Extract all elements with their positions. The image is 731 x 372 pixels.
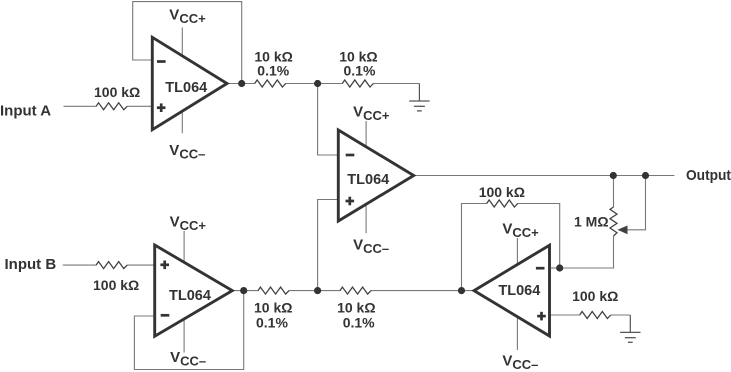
svg-text:1 MΩ: 1 MΩ [574, 213, 609, 229]
svg-text:0.1%: 0.1% [257, 63, 289, 79]
svg-text:Input A: Input A [0, 102, 51, 119]
svg-text:0.1%: 0.1% [343, 314, 375, 330]
svg-text:VCC–: VCC– [170, 349, 206, 369]
svg-text:VCC+: VCC+ [353, 104, 390, 124]
svg-text:TL064: TL064 [169, 288, 211, 304]
svg-text:TL064: TL064 [347, 172, 389, 188]
svg-text:0.1%: 0.1% [344, 63, 376, 79]
svg-text:TL064: TL064 [498, 283, 540, 299]
svg-text:100 kΩ: 100 kΩ [572, 288, 618, 304]
svg-text:10 kΩ: 10 kΩ [337, 300, 375, 316]
svg-text:Output: Output [686, 167, 731, 184]
svg-text:VCC–: VCC– [353, 237, 389, 257]
svg-text:TL064: TL064 [165, 80, 207, 96]
svg-text:VCC+: VCC+ [502, 221, 539, 241]
svg-text:0.1%: 0.1% [256, 314, 288, 330]
svg-text:VCC–: VCC– [502, 353, 538, 372]
svg-text:Input B: Input B [5, 256, 57, 273]
svg-text:100 kΩ: 100 kΩ [479, 184, 525, 200]
svg-text:100 kΩ: 100 kΩ [93, 277, 139, 293]
svg-text:VCC+: VCC+ [169, 7, 206, 27]
svg-text:10 kΩ: 10 kΩ [254, 300, 292, 316]
svg-text:VCC–: VCC– [169, 142, 205, 162]
svg-text:VCC+: VCC+ [170, 214, 207, 234]
svg-text:100 kΩ: 100 kΩ [94, 84, 140, 100]
